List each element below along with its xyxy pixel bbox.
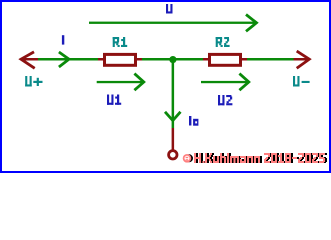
- arrowhead of U arrow: [246, 15, 257, 32]
- label R2 (teal): [216, 37, 230, 47]
- junction node dot: [169, 56, 176, 63]
- wire: vertical output branch (green part): [172, 60, 175, 128]
- label R1 (teal): [113, 37, 128, 47]
- label U1 (blue): [107, 95, 121, 105]
- wire: right segment: [247, 58, 294, 61]
- resistor R1: [98, 54, 142, 65]
- open terminal circle: [169, 151, 177, 159]
- current arrowhead Ia pointing down: [165, 112, 181, 121]
- voltage arrow U2 under R2: [201, 74, 249, 91]
- label I (blue): [62, 35, 64, 44]
- wire: left segment: [38, 58, 98, 61]
- voltage arrow U1 under R1: [97, 74, 144, 91]
- wire: middle segment: [142, 58, 203, 61]
- label U- (teal): [293, 76, 310, 87]
- wire: top voltage arrow U shaft: [89, 22, 257, 24]
- wire: vertical output branch (maroon part): [172, 128, 175, 150]
- watermark copyright text: [184, 153, 327, 163]
- terminal arrow U- (right, maroon): [294, 51, 310, 68]
- current arrowhead I on wire: [59, 52, 69, 67]
- label U+ (teal): [25, 76, 42, 87]
- label U2 (blue): [218, 95, 232, 105]
- label Ia (blue): [189, 116, 198, 126]
- label U (blue): [166, 4, 173, 14]
- resistor R2: [203, 54, 247, 65]
- terminal arrow U+ (left, maroon): [21, 52, 39, 68]
